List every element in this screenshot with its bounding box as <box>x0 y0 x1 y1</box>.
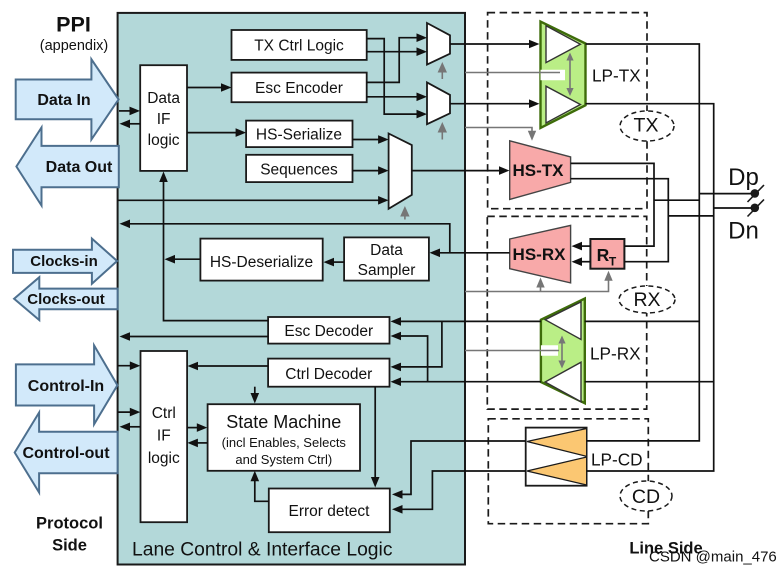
arrowhead into Data Sampler <box>430 249 441 258</box>
gray arrow LP-RX internal <box>558 336 565 369</box>
wire Dn stub <box>714 207 752 209</box>
wire Data IF to Esc Encoder <box>187 87 224 89</box>
wire LP-RX output 1 to Esc Decoder <box>397 320 541 322</box>
arrowhead into LP-TX input 1 <box>529 40 540 49</box>
arrowhead into Data IF left <box>130 107 141 116</box>
mux M3 (HS data mux) <box>389 134 412 209</box>
svg-text:HS-Deserialize: HS-Deserialize <box>210 254 313 271</box>
block TX Ctrl Logic <box>232 30 367 60</box>
wire Ctrl Decoder to Ctrl IF <box>194 365 268 367</box>
svg-text:Control-out: Control-out <box>22 445 110 462</box>
LP-TX driver pair <box>541 22 586 128</box>
gray arrowhead into HS-RX bottom <box>536 278 544 288</box>
ellipse RX <box>619 286 675 313</box>
gray stub mux M1 select <box>441 68 443 79</box>
arrowhead into Ctrl IF 2 <box>130 408 141 417</box>
wire mux M1 to LP-TX input 1 <box>450 43 532 45</box>
arrowhead into Ctrl Decoder right 2 <box>391 377 402 386</box>
dashed box CD section <box>488 419 648 524</box>
svg-text:Control-In: Control-In <box>28 378 104 395</box>
block Data Sampler <box>344 237 429 280</box>
arrowhead into HS-RX top <box>572 242 583 251</box>
wire HS-TX output 2 <box>571 179 669 262</box>
PPI arrow Data In <box>16 59 119 139</box>
svg-text:Lane Control & Interface Logic: Lane Control & Interface Logic <box>132 540 393 561</box>
svg-text:Dn: Dn <box>728 218 759 245</box>
dashed box TX section <box>488 13 647 209</box>
wire TX Ctrl Logic to mux M2 input 2 <box>367 39 420 115</box>
svg-text:Error detect: Error detect <box>289 503 371 520</box>
wire HS-TX output 1 <box>571 163 654 246</box>
gray wire to HS-TX top <box>465 128 532 135</box>
arrowhead into HS-Serialize <box>236 128 247 137</box>
svg-text:Data: Data <box>370 242 403 259</box>
gray arrowhead into RT bottom <box>604 271 612 281</box>
arrowhead into State Machine left <box>197 423 208 432</box>
wire HS-RX branch to PPI Data Out <box>126 224 450 253</box>
arrowhead into Error detect right 2 <box>392 505 403 514</box>
wire RT to HS-RX bottom <box>578 261 590 263</box>
gray stub mux M2 select <box>441 128 443 140</box>
wire HS-Serialize to mux M3 input 1 <box>353 139 382 141</box>
block Ctrl Decoder <box>268 359 389 387</box>
wire HS-RX output to Data Sampler <box>436 252 510 254</box>
arrowhead HS-Deserialize to node <box>165 255 176 264</box>
wire Ctrl Decoder to Error detect <box>374 387 376 482</box>
arrowhead into mux M2 input 2 <box>417 110 428 119</box>
arrowhead into mux M2 input 1 <box>417 93 428 102</box>
arrowhead into Ctrl Decoder right 1 <box>391 363 402 372</box>
LP-CD contention detector <box>526 428 587 486</box>
gray stub mux M3 select <box>404 212 406 220</box>
wire Data IF to HS-Serialize <box>187 132 239 134</box>
terminal Dp pad <box>748 185 765 202</box>
lane control block (teal box) <box>118 13 465 565</box>
gray arrowhead mux M3 select <box>400 206 409 217</box>
wire LP-CD output 1 to Error detect <box>399 441 526 494</box>
wire LP-RX output 2 to Ctrl Decoder <box>397 381 541 383</box>
arrowhead into Error detect top <box>371 477 380 488</box>
wire RT to HS-RX top <box>578 245 590 247</box>
arrowhead into HS-Deserialize <box>324 258 335 267</box>
block HS-Serialize <box>246 121 352 148</box>
svg-text:and System Ctrl): and System Ctrl) <box>235 452 332 467</box>
wire mux M2 to LP-TX input 2 <box>450 103 532 105</box>
PPI arrow Data Out <box>16 128 118 206</box>
block Esc Decoder <box>268 317 389 344</box>
svg-text:Side: Side <box>52 537 87 555</box>
dashed box RX section <box>487 216 646 409</box>
gray wire branch to HS-RX bottom <box>540 284 542 292</box>
svg-text:Esc Decoder: Esc Decoder <box>284 323 373 340</box>
arrowhead to PPI Data Out line <box>120 220 131 229</box>
block Error detect <box>269 489 390 533</box>
svg-text:CD: CD <box>632 486 660 508</box>
mux M1 (top small mux) <box>427 23 450 65</box>
HS-RX amplifier <box>510 225 571 283</box>
svg-text:HS-Serialize: HS-Serialize <box>256 127 342 144</box>
wire Ctrl IF to State Machine <box>187 427 201 429</box>
wire Esc Encoder to mux M2 input 1 <box>367 96 420 98</box>
svg-text:Data In: Data In <box>37 92 90 109</box>
svg-text:(incl Enables, Selects: (incl Enables, Selects <box>222 435 347 450</box>
wire Control-In to Ctrl IF 2 <box>118 411 134 413</box>
arrowhead into Ctrl IF 1 <box>130 361 141 370</box>
wire State Machine to Ctrl IF <box>194 442 208 444</box>
arrowhead into Data IF bottom <box>159 172 168 183</box>
svg-text:PPI: PPI <box>56 13 91 37</box>
svg-text:CSDN @main_476: CSDN @main_476 <box>649 549 777 566</box>
wire Dp bus to LP-RX input 1 <box>585 320 700 322</box>
gray arrowhead mux M1 select <box>438 62 447 73</box>
PPI arrow Clocks-in <box>13 239 117 284</box>
svg-text:LP-CD: LP-CD <box>591 450 643 470</box>
svg-text:Data Out: Data Out <box>46 159 113 176</box>
svg-text:Ctrl: Ctrl <box>152 405 176 422</box>
wire Esc Decoder to Data IF <box>164 179 269 321</box>
arrowhead into mux M3 input 3 <box>378 196 389 205</box>
wire LP-TX output 2 to Dn bus <box>586 104 714 471</box>
arrowhead into Ctrl IF right <box>188 362 199 371</box>
arrowhead into Esc Decoder right 1 <box>391 317 402 326</box>
arrowhead into mux M3 input 2 <box>378 166 389 175</box>
arrowhead into LP-TX input 2 <box>529 99 540 108</box>
mux M2 (second small mux) <box>427 82 450 124</box>
svg-text:Data: Data <box>147 90 180 107</box>
wire Esc Encoder to mux M1 input 1 <box>367 38 420 83</box>
gray wire to HS-RX and RT <box>465 277 609 292</box>
gray wire to LP-RX slot <box>465 350 559 352</box>
block Sequences <box>246 155 352 182</box>
svg-text:Sampler: Sampler <box>358 262 416 279</box>
wire Ctrl IF to Control-out <box>126 426 141 428</box>
wire Dn bus to LP-RX input 2 <box>585 381 714 383</box>
svg-text:LP-TX: LP-TX <box>592 66 641 86</box>
wire mux M3 to HS-TX input <box>412 170 502 172</box>
wire LP-RX output 2 branch to Esc Decoder <box>397 336 428 382</box>
svg-text:Dp: Dp <box>728 164 759 191</box>
wire TX Ctrl Logic to mux M1 input 2 <box>367 51 420 53</box>
svg-text:Clocks-in: Clocks-in <box>30 253 98 270</box>
PPI arrow Control-out <box>15 413 118 493</box>
block Esc Encoder <box>232 73 367 103</box>
ellipse TX <box>620 111 674 141</box>
wire Esc Decoder to PPI <box>126 336 268 338</box>
wire HS-TX output 1 branch to Dp bus <box>654 199 699 201</box>
arrowhead into HS-RX bottom <box>572 257 583 266</box>
svg-text:T: T <box>609 255 617 269</box>
PPI arrow Clocks-out <box>14 277 118 320</box>
wire PPI TxData to mux M3 input 3 <box>118 199 381 201</box>
arrowhead into HS-TX <box>499 166 510 175</box>
ellipse CD <box>620 481 672 511</box>
block HS-Deserialize <box>200 239 322 281</box>
terminal Dn pad <box>748 200 765 217</box>
svg-text:IF: IF <box>157 111 171 128</box>
svg-text:TX: TX <box>634 115 659 137</box>
arrowhead to Control-out <box>120 423 131 432</box>
arrowhead Esc Decoder to PPI <box>120 332 131 341</box>
wire Sequences to mux M3 input 2 <box>353 170 382 172</box>
svg-text:logic: logic <box>148 450 180 467</box>
svg-text:(appendix): (appendix) <box>40 38 109 54</box>
svg-text:R: R <box>597 245 610 265</box>
block Data IF logic <box>140 65 187 171</box>
PPI arrow Control-In <box>16 345 118 424</box>
gray arrowhead mux M2 select <box>438 122 447 133</box>
svg-text:Sequences: Sequences <box>260 162 338 179</box>
svg-text:logic: logic <box>148 132 180 149</box>
wire Error detect to State Machine <box>255 477 269 501</box>
wire Data IF to Data Out <box>127 123 140 125</box>
wire Ctrl Decoder to State Machine <box>254 387 256 398</box>
svg-text:Esc Encoder: Esc Encoder <box>255 80 343 97</box>
svg-text:State Machine: State Machine <box>226 412 341 432</box>
wire Data In to Data IF <box>119 110 132 112</box>
gray arrow LP-TX internal <box>566 53 573 97</box>
block State Machine <box>208 404 360 471</box>
arrowhead State Machine to Ctrl IF <box>187 439 198 448</box>
wire Dp stub <box>699 193 751 195</box>
arrowhead into Esc Encoder <box>221 83 232 92</box>
svg-text:Clocks-out: Clocks-out <box>27 291 105 308</box>
wire Control-In to Ctrl IF 1 <box>118 365 134 367</box>
resistor RT <box>590 239 624 269</box>
wire Data Sampler to HS-Deserialize <box>330 261 344 263</box>
gray wire to LP-TX slot <box>465 72 560 74</box>
arrowhead into mux M1 input 1 <box>417 33 428 42</box>
arrowhead into mux M1 input 2 <box>417 47 428 56</box>
wire HS-Deserialize output to node <box>171 258 200 260</box>
arrowhead into State Machine bottom <box>251 471 260 482</box>
svg-text:LP-RX: LP-RX <box>590 344 641 364</box>
arrowhead into Error detect right 1 <box>392 490 403 499</box>
arrowhead to Data Out <box>120 120 131 129</box>
wire LP-CD output 2 to Error detect <box>399 471 526 509</box>
svg-text:HS-RX: HS-RX <box>513 245 567 264</box>
wire LP-RX output 1 branch to Ctrl Decoder <box>397 321 442 367</box>
block Ctrl IF logic <box>141 351 188 522</box>
arrowhead into Esc Decoder right 2 <box>391 332 402 341</box>
svg-text:RX: RX <box>633 289 660 311</box>
LP-RX receiver pair <box>541 299 585 404</box>
svg-text:IF: IF <box>157 428 171 445</box>
gray arrowhead into HS-TX top <box>528 131 536 141</box>
arrowhead into State Machine top <box>251 393 260 404</box>
svg-text:Protocol: Protocol <box>36 515 103 533</box>
svg-text:HS-TX: HS-TX <box>513 161 565 180</box>
svg-text:TX Ctrl Logic: TX Ctrl Logic <box>254 38 344 55</box>
arrowhead into mux M3 input 1 <box>378 135 389 144</box>
svg-text:Ctrl Decoder: Ctrl Decoder <box>285 366 372 383</box>
wire LP-TX output 1 to Dp bus <box>586 44 700 441</box>
wire HS-TX output 2 branch to Dn bus <box>668 215 713 217</box>
HS-TX amplifier <box>510 141 571 200</box>
